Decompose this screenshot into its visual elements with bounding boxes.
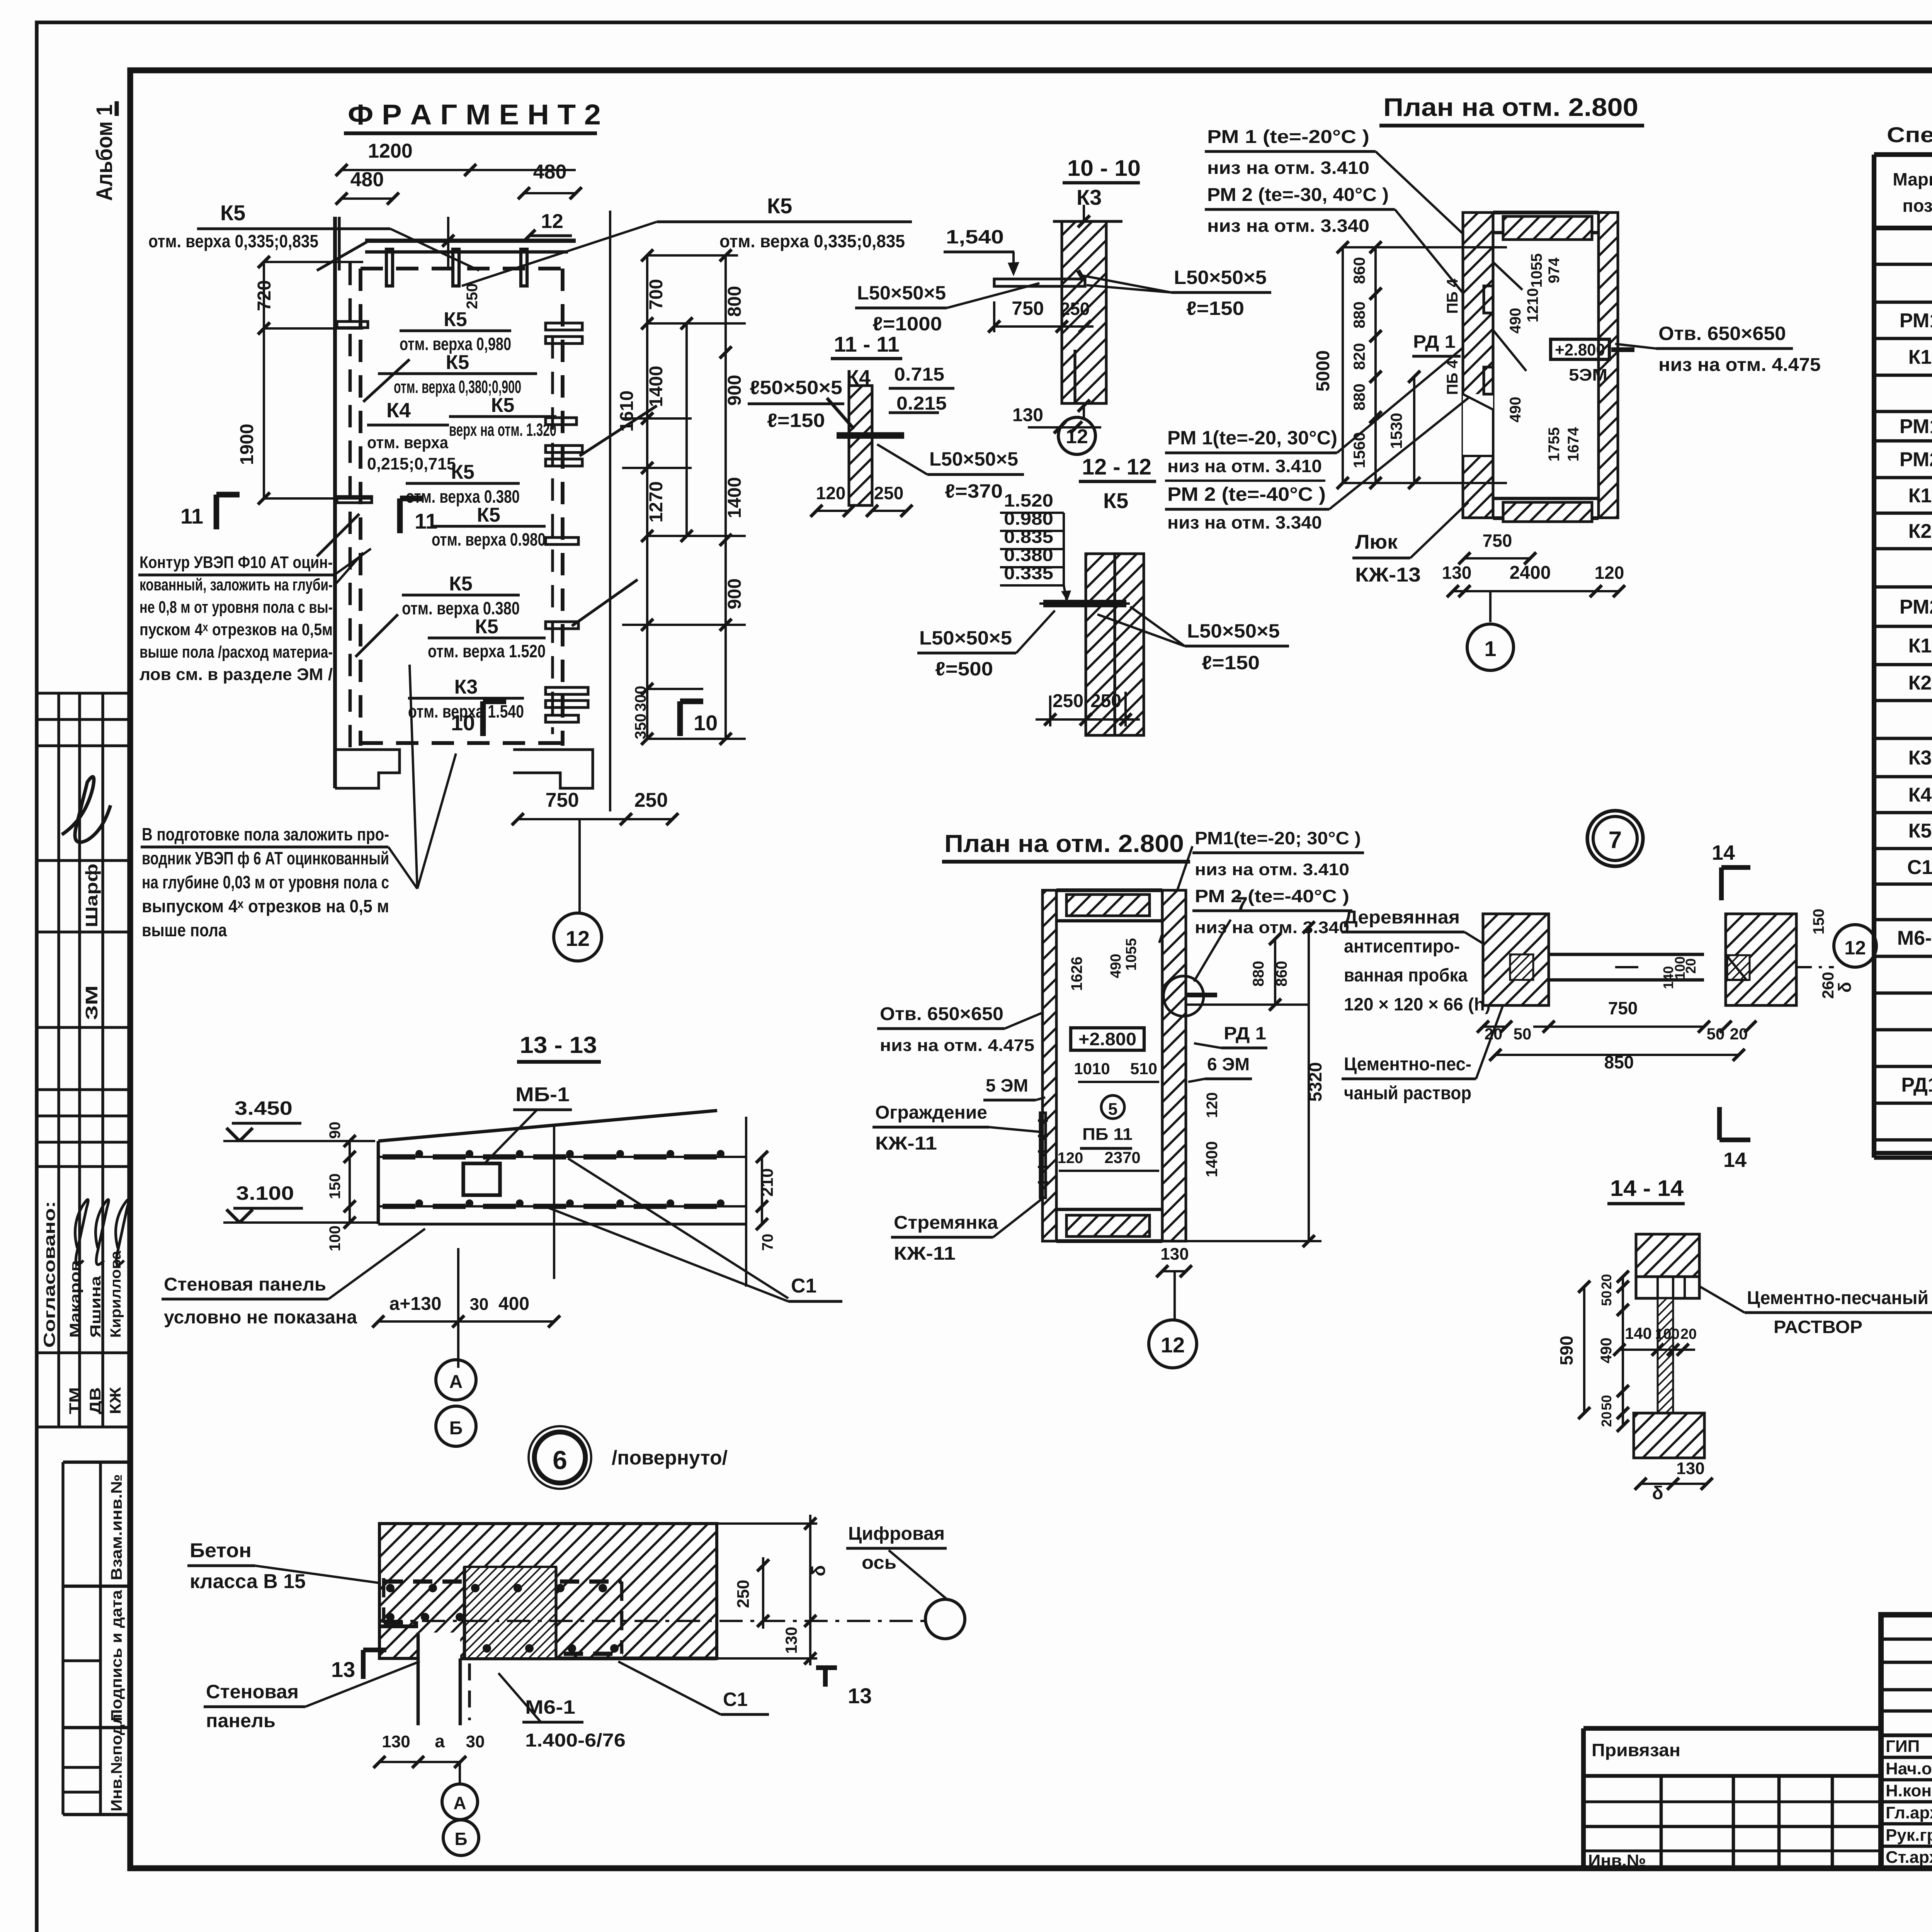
svg-text:Инв.№: Инв.№	[1588, 1851, 1646, 1870]
svg-text:13: 13	[848, 1684, 872, 1708]
svg-text:0.835: 0.835	[1004, 527, 1053, 547]
svg-text:13 - 13: 13 - 13	[520, 1032, 597, 1058]
svg-text:ГИП: ГИП	[1886, 1737, 1920, 1756]
svg-text:РМ 2 (te=-30, 40°C ): РМ 2 (te=-30, 40°C )	[1207, 185, 1389, 205]
svg-text:Цементно-пес-: Цементно-пес-	[1344, 1054, 1471, 1075]
svg-text:К5: К5	[449, 573, 473, 595]
svg-text:800: 800	[724, 286, 745, 317]
svg-text:РМ 1(te=-20, 30°C): РМ 1(te=-20, 30°C)	[1167, 427, 1337, 449]
svg-text:12: 12	[1066, 425, 1088, 448]
svg-text:1755: 1755	[1546, 427, 1563, 462]
svg-text:низ на отм. 3.410: низ на отм. 3.410	[1195, 860, 1349, 879]
svg-text:12: 12	[1161, 1333, 1185, 1357]
svg-text:490: 490	[1507, 397, 1524, 423]
svg-text:ось: ось	[862, 1553, 896, 1573]
svg-text:Люк: Люк	[1355, 531, 1398, 553]
svg-text:Привязан: Привязан	[1592, 1740, 1680, 1760]
svg-text:7: 7	[1236, 892, 1248, 917]
svg-text:выше пола: выше пола	[142, 920, 227, 940]
svg-text:14 - 14: 14 - 14	[1610, 1176, 1684, 1201]
svg-text:Деревянная: Деревянная	[1344, 907, 1460, 928]
svg-text:300: 300	[632, 686, 649, 712]
svg-text:Стеновая: Стеновая	[206, 1681, 299, 1702]
svg-text:Отв. 650×650: Отв. 650×650	[1658, 323, 1786, 344]
svg-text:490: 490	[1507, 308, 1524, 334]
svg-text:низ на отм. 3.410: низ на отм. 3.410	[1207, 158, 1369, 178]
svg-text:Яшина: Яшина	[88, 1276, 104, 1338]
svg-text:КЖ-11: КЖ-11	[875, 1133, 937, 1154]
svg-text:К5: К5	[767, 194, 792, 218]
svg-text:Согласовано:: Согласовано:	[40, 1201, 58, 1348]
svg-text:6: 6	[553, 1446, 567, 1475]
svg-text:низ на отм. 3.410: низ на отм. 3.410	[1167, 456, 1322, 476]
svg-text:К5: К5	[1103, 488, 1128, 513]
svg-text:Альбом 1: Альбом 1	[92, 104, 117, 201]
svg-text:Инв.№подл.: Инв.№подл.	[108, 1709, 125, 1811]
svg-text:Цементно-песчаный: Цементно-песчаный	[1747, 1288, 1929, 1308]
svg-text:Б: Б	[449, 1418, 463, 1439]
svg-text:РД 1: РД 1	[1413, 332, 1456, 352]
svg-text:К1: К1	[1908, 635, 1932, 657]
svg-text:12 - 12: 12 - 12	[1082, 454, 1151, 480]
svg-text:13: 13	[331, 1657, 355, 1682]
svg-text:К4: К4	[1908, 784, 1932, 806]
svg-text:10: 10	[694, 711, 718, 735]
svg-text:900: 900	[724, 578, 745, 609]
svg-text:План на отм. 2.800: План на отм. 2.800	[1383, 93, 1638, 121]
svg-text:L50×50×5: L50×50×5	[1174, 267, 1267, 288]
svg-text:130: 130	[1676, 1459, 1704, 1478]
svg-text:120: 120	[1204, 1092, 1221, 1118]
svg-text:Б: Б	[454, 1829, 467, 1849]
svg-text:1610: 1610	[617, 391, 637, 432]
svg-text:/повернуто/: /повернуто/	[612, 1447, 728, 1469]
svg-text:750: 750	[1012, 298, 1044, 319]
svg-text:1626: 1626	[1068, 957, 1085, 991]
svg-text:Н.контр.: Н.контр.	[1886, 1781, 1932, 1800]
svg-text:+2.800: +2.800	[1555, 340, 1605, 359]
svg-text:К5: К5	[444, 308, 467, 331]
svg-text:δ: δ	[1652, 1483, 1663, 1503]
svg-text:20: 20	[1485, 1025, 1503, 1043]
svg-text:150: 150	[1810, 909, 1827, 935]
svg-text:70: 70	[759, 1234, 776, 1251]
svg-text:отм. верха 0.380: отм. верха 0.380	[402, 598, 520, 618]
svg-text:К2: К2	[1908, 520, 1932, 543]
svg-text:К5: К5	[451, 461, 474, 483]
svg-text:490: 490	[1108, 954, 1124, 978]
svg-text:L50×50×5: L50×50×5	[1187, 620, 1280, 642]
svg-text:11 - 11: 11 - 11	[834, 332, 900, 356]
svg-text:ТМ: ТМ	[66, 1387, 83, 1414]
svg-text:ℓ=150: ℓ=150	[1186, 298, 1244, 319]
svg-text:1200: 1200	[368, 140, 413, 162]
svg-text:14: 14	[1712, 841, 1735, 864]
svg-text:КЖ: КЖ	[107, 1387, 124, 1414]
svg-text:РМ2: РМ2	[1900, 449, 1932, 471]
svg-text:1: 1	[1484, 636, 1496, 661]
svg-text:720: 720	[254, 280, 275, 311]
svg-text:отм. верха: отм. верха	[367, 433, 448, 452]
svg-text:30: 30	[466, 1732, 485, 1751]
svg-text:860: 860	[1350, 257, 1368, 284]
svg-text:С1: С1	[1907, 856, 1932, 879]
svg-text:М6-1: М6-1	[1897, 927, 1932, 949]
svg-text:7: 7	[1609, 827, 1622, 854]
svg-text:кованный, заложить на глуби-: кованный, заложить на глуби-	[139, 575, 333, 594]
svg-text:250: 250	[464, 283, 481, 309]
svg-text:К5: К5	[220, 201, 245, 225]
svg-text:11: 11	[180, 504, 203, 528]
svg-text:лов см. в разделе ЭМ /: лов см. в разделе ЭМ /	[139, 665, 333, 684]
svg-text:880: 880	[1350, 383, 1368, 410]
svg-text:КЖ-11: КЖ-11	[894, 1243, 956, 1264]
svg-text:Ст.арх.: Ст.арх.	[1886, 1848, 1932, 1867]
svg-text:РМ 2 (te=-40°C ): РМ 2 (te=-40°C )	[1167, 483, 1326, 505]
svg-text:М6-1: М6-1	[525, 1696, 575, 1718]
svg-text:12: 12	[566, 926, 590, 951]
svg-text:90: 90	[327, 1122, 344, 1139]
svg-text:0,215;0,715: 0,215;0,715	[367, 454, 456, 473]
svg-text:30: 30	[470, 1295, 489, 1314]
svg-text:РД 1: РД 1	[1224, 1023, 1266, 1043]
svg-text:5000: 5000	[1313, 350, 1333, 392]
svg-text:974: 974	[1546, 257, 1563, 283]
svg-text:50: 50	[1707, 1025, 1725, 1043]
svg-text:1400: 1400	[1202, 1141, 1221, 1177]
svg-text:К5: К5	[475, 616, 498, 638]
svg-text:1674: 1674	[1565, 427, 1582, 462]
svg-text:5ЭМ: 5ЭМ	[1569, 366, 1607, 384]
svg-text:1210: 1210	[1524, 288, 1541, 323]
svg-text:низ на отм. 3.340: низ на отм. 3.340	[1167, 512, 1322, 532]
svg-text:МБ-1: МБ-1	[515, 1083, 570, 1106]
svg-text:250: 250	[1053, 691, 1083, 711]
svg-text:50: 50	[1514, 1025, 1532, 1043]
svg-text:К2: К2	[1908, 672, 1932, 694]
svg-text:0.715: 0.715	[894, 364, 944, 385]
svg-text:12: 12	[1844, 937, 1866, 959]
svg-text:отм. верха 0,335;0,835: отм. верха 0,335;0,835	[148, 231, 318, 251]
svg-text:отм. верха 0.980: отм. верха 0.980	[432, 529, 546, 549]
svg-text:ПБ 4: ПБ 4	[1444, 359, 1461, 395]
svg-text:0.215: 0.215	[896, 393, 947, 414]
svg-text:Нач.отд.: Нач.отд.	[1886, 1759, 1932, 1778]
svg-text:20: 20	[1680, 1326, 1697, 1342]
svg-text:антисептиро-: антисептиро-	[1344, 936, 1460, 957]
svg-text:ванная пробка: ванная пробка	[1344, 965, 1468, 986]
svg-text:Ограждение: Ограждение	[875, 1102, 987, 1123]
svg-text:Гл.арх.: Гл.арх.	[1886, 1803, 1932, 1822]
svg-text:ПБ 4: ПБ 4	[1444, 278, 1461, 314]
svg-text:а+130: а+130	[389, 1294, 442, 1314]
svg-text:отм. верха 0,335;0,835: отм. верха 0,335;0,835	[719, 231, 905, 251]
svg-text:1055: 1055	[1528, 253, 1545, 288]
svg-text:δ: δ	[809, 1565, 829, 1576]
svg-text:К5: К5	[1908, 820, 1932, 842]
svg-text:класса В 15: класса В 15	[190, 1570, 306, 1593]
svg-text:130: 130	[782, 1627, 800, 1654]
svg-text:400: 400	[498, 1294, 529, 1314]
svg-text:РМ2: РМ2	[1900, 596, 1932, 618]
svg-text:900: 900	[724, 375, 745, 406]
svg-text:РАСТВОР: РАСТВОР	[1774, 1317, 1862, 1337]
svg-text:Ф Р А Г М Е Н Т 2: Ф Р А Г М Е Н Т 2	[348, 99, 601, 131]
svg-text:РМ 2 (te=-40°C ): РМ 2 (te=-40°C )	[1195, 886, 1349, 906]
svg-text:Рук.гр.: Рук.гр.	[1886, 1826, 1932, 1845]
svg-text:Спецификация рамок, кронштейн: Спецификация рамок, кронштейнов и элемен…	[1887, 122, 1932, 147]
svg-text:480: 480	[350, 168, 384, 191]
svg-text:не 0,8 м от уровня пола с вы-: не 0,8 м от уровня пола с вы-	[139, 598, 333, 617]
svg-text:ПБ 11: ПБ 11	[1082, 1125, 1133, 1144]
svg-text:130: 130	[382, 1732, 410, 1751]
svg-text:700: 700	[646, 279, 667, 310]
svg-text:480: 480	[533, 161, 567, 183]
svg-text:250: 250	[734, 1580, 753, 1608]
svg-text:Цифровая: Цифровая	[848, 1524, 945, 1544]
svg-text:С1: С1	[791, 1275, 816, 1297]
svg-text:5: 5	[1108, 1100, 1117, 1119]
svg-text:750: 750	[546, 789, 579, 811]
svg-text:К4: К4	[386, 399, 411, 422]
svg-text:верх на отм. 1.320: верх на отм. 1.320	[449, 420, 556, 440]
svg-text:ℓ=500: ℓ=500	[935, 658, 993, 680]
svg-text:К5: К5	[446, 351, 469, 374]
svg-text:850: 850	[1604, 1052, 1634, 1072]
svg-text:510: 510	[1130, 1060, 1157, 1078]
svg-text:6 ЭМ: 6 ЭМ	[1207, 1054, 1250, 1074]
svg-text:К5: К5	[477, 504, 500, 526]
svg-text:20: 20	[1599, 1412, 1614, 1427]
svg-text:выпуском 4ˣ отрезков на 0,: выпуском 4ˣ отрезков на 0,5 м	[142, 896, 389, 916]
svg-text:1560: 1560	[1350, 432, 1368, 468]
svg-text:РМ1: РМ1	[1900, 310, 1932, 332]
svg-text:3.450: 3.450	[235, 1097, 293, 1119]
svg-text:1400: 1400	[646, 366, 667, 407]
svg-text:ЗМ: ЗМ	[82, 985, 101, 1020]
svg-text:на глубине 0,03 м от уровня п: на глубине 0,03 м от уровня пола с	[142, 872, 389, 892]
svg-text:750: 750	[1483, 531, 1512, 551]
svg-text:Отв. 650×650: Отв. 650×650	[880, 1004, 1003, 1024]
svg-text:низ на отм. 4.475: низ на отм. 4.475	[880, 1036, 1034, 1055]
svg-text:Шарф: Шарф	[82, 864, 101, 927]
svg-text:чаный раствор: чаный раствор	[1344, 1083, 1471, 1104]
svg-text:880: 880	[1250, 961, 1267, 987]
svg-text:3.100: 3.100	[236, 1182, 294, 1204]
svg-text:20: 20	[1599, 1274, 1614, 1289]
svg-text:водник УВЭП ф 6 АТ оцинкованны: водник УВЭП ф 6 АТ оцинкованный	[142, 848, 389, 868]
svg-text:260: 260	[1819, 972, 1837, 999]
svg-text:РМ1(te=-20; 30°C ): РМ1(te=-20; 30°C )	[1195, 828, 1361, 848]
svg-text:низ на отм. 4.475: низ на отм. 4.475	[1658, 355, 1821, 375]
svg-text:ДВ: ДВ	[87, 1387, 104, 1414]
svg-text:L50×50×5: L50×50×5	[929, 448, 1018, 470]
svg-text:1,540: 1,540	[946, 226, 1004, 248]
svg-text:250: 250	[1060, 299, 1090, 319]
svg-text:С1: С1	[723, 1689, 748, 1710]
svg-text:КЖ-13: КЖ-13	[1355, 564, 1421, 586]
svg-text:20: 20	[1730, 1025, 1748, 1043]
svg-text:250: 250	[634, 789, 668, 811]
svg-text:ℓ=370: ℓ=370	[945, 480, 1003, 502]
svg-text:Стремянка: Стремянка	[894, 1213, 998, 1233]
svg-text:Стеновая панель: Стеновая панель	[164, 1274, 326, 1295]
svg-text:14: 14	[1723, 1148, 1747, 1172]
svg-text:К3: К3	[1908, 747, 1932, 769]
svg-text:250: 250	[874, 483, 904, 503]
svg-text:низ на отм. 3.340: низ на отм. 3.340	[1195, 918, 1349, 937]
svg-text:50: 50	[1599, 1395, 1614, 1410]
svg-text:750: 750	[1608, 998, 1638, 1018]
svg-text:План на отм. 2.800: План на отм. 2.800	[944, 830, 1184, 857]
svg-text:пуском 4ˣ отрезков на 0,5м: пуском 4ˣ отрезков на 0,5м	[139, 620, 333, 639]
svg-text:ℓ=150: ℓ=150	[767, 410, 825, 431]
svg-text:11: 11	[415, 509, 437, 533]
svg-text:120: 120	[816, 483, 846, 503]
svg-text:0.335: 0.335	[1004, 563, 1053, 583]
svg-text:100: 100	[327, 1226, 344, 1252]
svg-text:590: 590	[1556, 1336, 1577, 1366]
svg-text:250: 250	[1090, 691, 1121, 711]
svg-text:5 ЭМ: 5 ЭМ	[986, 1075, 1028, 1095]
svg-text:А: А	[449, 1372, 463, 1392]
svg-text:К5: К5	[491, 394, 515, 417]
svg-text:условно не показана: условно не показана	[164, 1307, 357, 1328]
svg-text:2400: 2400	[1510, 563, 1551, 583]
svg-text:130: 130	[1160, 1245, 1189, 1264]
svg-text:К3: К3	[1077, 185, 1102, 209]
svg-text:50: 50	[1599, 1291, 1614, 1306]
svg-text:120: 120	[1595, 563, 1624, 583]
svg-text:130: 130	[1442, 563, 1472, 583]
svg-text:12: 12	[541, 210, 563, 233]
svg-text:Подпись и дата: Подпись и дата	[108, 1590, 125, 1721]
svg-text:130: 130	[1012, 405, 1043, 425]
svg-text:+2.800: +2.800	[1078, 1029, 1136, 1049]
svg-text:1900: 1900	[237, 424, 257, 465]
svg-text:К1: К1	[1908, 485, 1932, 507]
svg-text:выше пола /расход материа-: выше пола /расход материа-	[139, 643, 333, 662]
svg-text:1.520: 1.520	[1004, 490, 1053, 510]
svg-text:РД1: РД1	[1901, 1074, 1932, 1096]
svg-text:отм. верха 1.520: отм. верха 1.520	[428, 641, 546, 661]
svg-text:К3: К3	[454, 676, 478, 698]
svg-text:а: а	[435, 1731, 445, 1751]
svg-text:210: 210	[758, 1168, 777, 1196]
svg-text:0.380: 0.380	[1004, 545, 1053, 565]
svg-text:Марка: Марка	[1893, 169, 1932, 189]
svg-text:ℓ=150: ℓ=150	[1202, 652, 1260, 673]
svg-text:К1: К1	[1908, 346, 1932, 369]
svg-text:120 × 120 × 66 (h): 120 × 120 × 66 (h)	[1344, 994, 1491, 1014]
svg-text:150: 150	[327, 1173, 344, 1199]
svg-text:860: 860	[1273, 961, 1290, 987]
svg-text:поз.: поз.	[1903, 196, 1932, 216]
svg-text:L50×50×5: L50×50×5	[857, 282, 946, 304]
svg-text:низ на отм. 3.340: низ на отм. 3.340	[1207, 216, 1369, 236]
svg-text:490: 490	[1598, 1338, 1615, 1364]
svg-text:РМ 1 (te=-20°C ): РМ 1 (te=-20°C )	[1207, 127, 1369, 147]
svg-text:140: 140	[1625, 1324, 1652, 1342]
svg-text:1.400-6/76: 1.400-6/76	[525, 1730, 626, 1751]
svg-text:Контур УВЭП Ф10 АТ оцин-: Контур УВЭП Ф10 АТ оцин-	[139, 553, 333, 572]
svg-text:1270: 1270	[646, 481, 667, 523]
svg-text:350: 350	[632, 714, 649, 740]
svg-text:L50×50×5: L50×50×5	[919, 627, 1012, 649]
svg-text:1055: 1055	[1123, 938, 1139, 971]
svg-text:δ: δ	[1835, 982, 1855, 993]
svg-text:Взам.инв.№: Взам.инв.№	[108, 1474, 125, 1580]
svg-text:140: 140	[1660, 966, 1676, 989]
svg-text:Бетон: Бетон	[190, 1539, 252, 1562]
svg-text:1010: 1010	[1074, 1060, 1110, 1078]
svg-text:А: А	[453, 1793, 466, 1813]
svg-text:1530: 1530	[1387, 413, 1405, 449]
svg-text:820: 820	[1350, 343, 1368, 370]
svg-text:В подготовке пола заложить про: В подготовке пола заложить про-	[142, 824, 389, 844]
svg-text:РМ1: РМ1	[1900, 415, 1932, 438]
svg-text:ℓ=1000: ℓ=1000	[872, 313, 942, 335]
svg-text:ℓ50×50×5: ℓ50×50×5	[750, 377, 842, 398]
svg-text:панель: панель	[206, 1710, 276, 1731]
svg-text:120: 120	[1058, 1150, 1083, 1167]
svg-text:2370: 2370	[1104, 1148, 1140, 1167]
svg-text:880: 880	[1350, 301, 1368, 328]
svg-text:0.980: 0.980	[1004, 509, 1053, 529]
svg-text:10: 10	[451, 711, 475, 735]
svg-text:10 - 10: 10 - 10	[1067, 156, 1141, 181]
svg-text:5320: 5320	[1305, 1062, 1325, 1102]
svg-text:100: 100	[1655, 1326, 1679, 1342]
svg-text:1400: 1400	[724, 477, 745, 519]
svg-text:Макаров: Макаров	[67, 1260, 83, 1338]
